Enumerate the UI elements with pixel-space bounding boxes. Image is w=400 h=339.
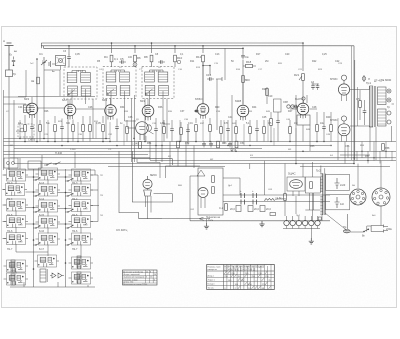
resistor R39 under V5 [195, 118, 198, 142]
socket XS1 [350, 189, 366, 205]
coil cell L28 [69, 257, 94, 269]
tube V3 6К3 [102, 98, 116, 120]
coil cell L16 [69, 184, 94, 196]
wire: speaker return [392, 104, 395, 142]
coil cell L13 [69, 169, 94, 181]
scattered tiny value labels (texture) [6, 50, 376, 217]
electrolytic C54 [260, 206, 271, 212]
components under V6/V7 between 250-300 [270, 112, 280, 142]
loudspeaker Гр1 [374, 79, 391, 105]
tube V5 6Х6С [195, 97, 209, 119]
wire: diagonal to mains [325, 213, 347, 231]
resistor R37 x164 [163, 120, 166, 142]
wire: mid bus 6 [4, 154, 149, 156]
capacitor C38 x172 [170, 120, 174, 142]
resistor R31 x83 [82, 116, 85, 142]
capacitor C38a x188 [186, 124, 190, 142]
resistor R2 drop x111.5 [104, 43, 118, 67]
ground G2 [259, 221, 264, 227]
output stage box [197, 168, 223, 215]
resistor R58 right band [382, 144, 390, 151]
resistor R25 under V1 [24, 115, 27, 142]
capacitor C16 drop x243 [241, 48, 249, 104]
wire: left rail 1 [3, 90, 5, 170]
coil cell L19 [69, 200, 94, 212]
resistor R35 x127 [126, 120, 129, 142]
junction dots top [36, 42, 304, 164]
electrolytic C53 [248, 206, 259, 212]
wire: left rail 2 [8, 95, 10, 170]
resistor R30 under V2 [72, 120, 75, 142]
coupling components x351-366 [352, 46, 367, 160]
power transformer Тр2 winding column [316, 169, 326, 216]
grid-cap of V7 [302, 97, 305, 103]
wire: long horizontal grid line left [18, 97, 104, 110]
junction dots right band [353, 151, 386, 162]
wire: left horizontals to V1 [4, 97, 27, 104]
wire: matrix to mid bus left [9, 152, 75, 170]
coil cell L21 [36, 216, 61, 228]
resistor R28 under V2 [54, 116, 57, 142]
diode pair D1 [50, 273, 64, 278]
wire: V7 surround verticals [267, 84, 319, 151]
resistor R46 x264 [263, 120, 266, 142]
dashed filter box F1 [18, 124, 34, 137]
IF transformer IFT2 (dashed shield) [103, 67, 136, 99]
wire: left rail 3 [13, 100, 15, 164]
wire: AVC bus C [44, 47, 244, 49]
coil cell L27 [35, 255, 60, 267]
capacitor C29 under V2 [60, 119, 64, 142]
coil cell L17 [4, 199, 29, 211]
terminal strip XT1 (6 pins) [283, 216, 320, 229]
wire: rect to strip [284, 164, 286, 195]
resistor R33 under V3 [102, 116, 105, 142]
wire: matrix top links [9, 170, 95, 175]
socket XS2 [372, 188, 390, 206]
coil cell L20 [4, 216, 29, 228]
ground under eye [204, 219, 209, 229]
coil cell L14 [3, 184, 28, 196]
wire: AF enclosure vertical [217, 48, 296, 163]
filter choke resistor R51 [264, 198, 287, 201]
phono jack cluster [4, 158, 18, 168]
magic eye tube 6Е5С [143, 173, 157, 196]
junction dots on buses [24, 141, 355, 165]
resistor R50 [219, 204, 227, 211]
coil cell L11 [4, 169, 29, 181]
fuse at transformer bottom [318, 217, 321, 220]
box under V7 [289, 115, 310, 142]
indicator lamp component x364 [362, 75, 370, 82]
IF transformer IFT1 (dashed shield) [64, 67, 97, 99]
wire: mid bus 2 [4, 141, 397, 143]
coil cell L26 [4, 260, 29, 272]
resistors right of V7 [316, 112, 333, 142]
wire: V6 top to bus [242, 82, 244, 105]
capacitor C5 x124 [119, 57, 126, 64]
switch block [28, 161, 61, 169]
IF transformer IFT3 (dashed shield) [142, 67, 174, 99]
wire: filter mid rail [223, 201, 330, 203]
capacitor C26 under V1 [30, 119, 34, 142]
tube V1 6К3 [24, 97, 38, 119]
wire: mid bus 4 [14, 148, 262, 150]
tube V8 in box [198, 188, 208, 209]
wire: matrix rail 1 [33, 169, 35, 287]
wire: bus B corner down x354 [353, 46, 355, 164]
resistor R38a x181 [180, 122, 183, 142]
wire: eye loop inner [132, 151, 172, 202]
junction dots under tubes [19, 138, 331, 146]
wire: IFT1 coil leads down to bus [68, 89, 93, 142]
junction dots matrix [33, 176, 67, 270]
wire: mid bus 9 [14, 163, 354, 165]
scattered small value labels top section [18, 50, 340, 125]
electrolytic C52 [230, 206, 241, 212]
wire: mid bus 5 [4, 150, 397, 152]
tube V2 6А7 [62, 98, 76, 120]
wire: left bracket joining buses [41, 43, 43, 48]
HT filter box with capacitor 2x20 [326, 174, 350, 190]
capacitor C34 under V3 [115, 119, 119, 142]
capacitor bank C50 [240, 190, 245, 205]
capacitor bank C51 [252, 190, 257, 205]
coil cell L15 [36, 184, 61, 196]
wire: top supply bus A [41, 42, 303, 44]
wire: V5 column up [202, 62, 204, 104]
resistor R6 drop x135 [133, 46, 141, 67]
wire: mid bus 8 [150, 160, 396, 162]
wire: eye tube leads [146, 194, 173, 219]
detector tube V4a [136, 122, 152, 140]
lightning arrester box [6, 70, 17, 95]
wire: transformer top feeds [296, 164, 303, 215]
resistor R19 x243 y79 [242, 76, 251, 83]
resistor R8 drop x151.5 [144, 43, 153, 67]
wire: filter top rail [223, 194, 330, 196]
resistor R20a before V7 [262, 88, 268, 95]
resistor R54 [277, 194, 286, 216]
ground G3 [309, 229, 314, 245]
hatched coil bars col1 bottom [11, 260, 15, 285]
capacitor C9 x163 [158, 60, 165, 64]
wire: matrix rail 2 [65, 169, 67, 287]
fuse F2 [270, 213, 276, 216]
wire: eye loop mid [137, 159, 200, 178]
rectifier feed box left of transformer [305, 177, 320, 210]
wire: lower power rail [190, 220, 330, 222]
resistor R32 x90 [89, 116, 92, 142]
scattered labels mid buses [147, 142, 370, 158]
resistor R10 drop x175 [174, 46, 183, 67]
wire: socket2 to mains [367, 206, 381, 232]
matrix switch arrows [33, 178, 73, 246]
input coil can L1 [49, 56, 66, 68]
coil cell L23 [4, 233, 29, 245]
wire: transformer feeds [312, 162, 324, 222]
wire: mid bus 3 [4, 145, 331, 147]
wire: antenna column verticals [26, 59, 60, 142]
wire: V3 V4 grid caps up [32, 97, 148, 105]
wire: top supply bus B [41, 45, 354, 47]
capacitor C45 x257 [255, 120, 259, 142]
output transformer Тр1 [366, 81, 376, 127]
loudspeaker field coil [378, 105, 392, 126]
resistor R12 drop x203 [196, 46, 211, 103]
coil cell L12 [36, 168, 61, 180]
output tube V10 6П3С [330, 116, 350, 142]
wire: verticals under detector [150, 142, 194, 169]
potentiometer R21 drop x303 [294, 43, 304, 103]
wire: detector couplings [125, 121, 171, 134]
coil cell L29 [4, 273, 29, 285]
grid-row small components on mid bus (x135-240,y144) [139, 141, 238, 148]
wire: right lower horizontals [300, 155, 396, 158]
wire: mid bus 10 [108, 166, 390, 168]
stamp block [123, 270, 158, 286]
tube V4 6К3 [140, 99, 154, 121]
output tube V9 6П3С [330, 75, 350, 101]
coil cell L25 [69, 233, 94, 245]
wire: power box feeds [190, 161, 264, 221]
coupling network before V7 [268, 95, 300, 112]
tube V7 6Н7С [295, 97, 309, 119]
wire: tubes to output transformer [350, 86, 370, 127]
resistor R41 x221 [220, 120, 223, 142]
wire: socket feeds [358, 161, 381, 188]
wire: mid bus 7 [10, 157, 390, 159]
wire: matrix column drop links [16, 180, 81, 274]
wire: matrix row interlinks [3, 175, 100, 239]
resistor R40 under V5 [209, 118, 212, 142]
coil cell L18 [36, 200, 61, 212]
coil cell L31 [69, 272, 94, 284]
wire: mid bus 1 [4, 138, 111, 140]
matrix tiny labels [7, 182, 78, 251]
coil cell L24 [36, 233, 61, 245]
resistor R1 on antenna drop [31, 77, 39, 84]
resistor R18 x243 y66 [243, 60, 256, 68]
LT filter box with capacitor [326, 195, 350, 210]
wire: right verticals [338, 127, 376, 164]
tube V6 6Ж8 [235, 99, 249, 121]
wire: right band verticals [348, 142, 392, 164]
rectifier tube 5Ц4С [287, 172, 305, 197]
fuse Пр1 [343, 214, 350, 233]
wire: output to socket with arrow [162, 217, 221, 222]
hatched coil bars col3 bottom [77, 256, 81, 283]
wire: matrix bottom links [10, 282, 95, 287]
switch SA1 [350, 229, 369, 238]
wire: comb of component leads under tube row [20, 118, 338, 146]
capacitor C2 on drop x69 [67, 46, 71, 67]
resistor R44 under V6 [249, 120, 252, 142]
capacitor C42 x228 [226, 120, 230, 142]
wire: antenna trimmer links [44, 66, 61, 71]
capacitors right of pot [311, 81, 319, 90]
wire: IFT2 coil leads down [106, 91, 135, 162]
resistor R27 under V1 right [39, 120, 42, 142]
table: tube voltage chart [207, 265, 275, 290]
oscillator coil with core L30 [40, 269, 48, 282]
mains plug 220в [371, 225, 392, 233]
wire: eye loop outer [119, 151, 162, 218]
capacitor C36 x156 [154, 118, 158, 142]
capacitor C14 x210 y79 [206, 73, 222, 81]
coil cell L22 [69, 216, 94, 228]
trimmer capacitor C1 [39, 52, 47, 66]
wire: IFT3 coil leads down [145, 91, 167, 142]
resistor R43 under V6 [235, 120, 238, 142]
antenna A1 [3, 39, 14, 70]
grounding capacitor beside antenna [10, 54, 16, 67]
